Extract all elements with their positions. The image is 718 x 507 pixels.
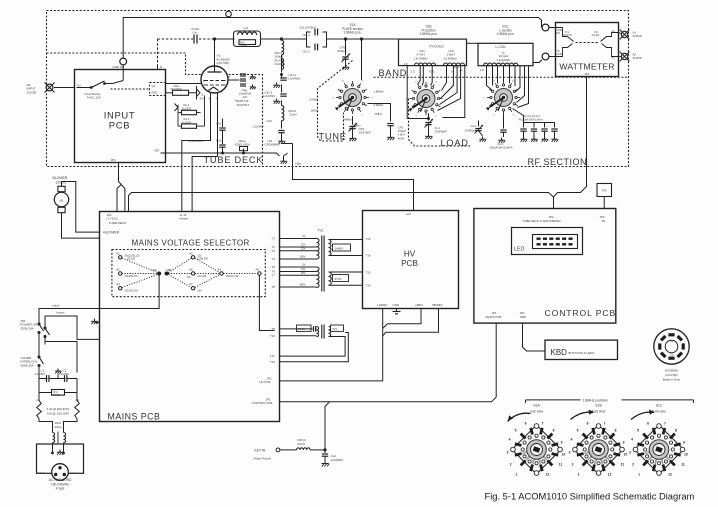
- svg-text:front view: front view: [652, 410, 666, 414]
- svg-text:10n/560V: 10n/560V: [331, 458, 344, 462]
- choke RFC2 22uH: [282, 101, 297, 129]
- svg-text:(GU74B): (GU74B): [665, 373, 677, 377]
- svg-text:+HV: +HV: [406, 212, 412, 216]
- wire PI to L coil: [467, 42, 479, 44]
- caption: [485, 492, 695, 502]
- capacitor Cb2 2.2n/6kV: [253, 119, 286, 144]
- connector A1 SO239: [619, 30, 642, 40]
- node MB: [165, 268, 171, 275]
- label tap 1.8: [404, 62, 463, 73]
- svg-text:C1: C1: [41, 369, 45, 373]
- svg-text:L-COIL: L-COIL: [496, 45, 507, 49]
- wire G2 bus: [155, 149, 263, 155]
- svg-text:MAINS PCB: MAINS PCB: [108, 412, 161, 422]
- svg-text:A8: A8: [255, 268, 259, 272]
- wire wattmeter JP1 down: [554, 77, 587, 198]
- fuse FB: [75, 393, 80, 419]
- svg-text:4x130pF/2kV/1.5kVA: 4x130pF/2kV/1.5kVA: [519, 118, 543, 122]
- svg-text:1: 1: [638, 473, 640, 477]
- svg-text:7MHz: 7MHz: [375, 112, 383, 116]
- RF section dashed border: [47, 11, 629, 167]
- svg-text:120,240: 120,240: [127, 258, 136, 261]
- label RF SECTION: [528, 157, 588, 167]
- svg-text:JP1: JP1: [584, 72, 590, 76]
- svg-text:TV1: TV1: [318, 229, 324, 233]
- svg-text:(240),245: (240),245: [198, 258, 209, 261]
- wire black feed: [39, 309, 100, 323]
- svg-text:TR: TR: [602, 219, 606, 223]
- svg-text:1.8: 1.8: [480, 68, 484, 72]
- tap A2: [116, 268, 138, 279]
- resistor Rs.1 2x2/2W: [179, 103, 197, 115]
- capacitor CP1 5/30pF: [338, 39, 351, 70]
- cathode prong glyph: [197, 86, 205, 101]
- capacitor Cs4 10n/560V: [322, 450, 344, 467]
- tap A3: [116, 282, 138, 293]
- svg-text:S1B: S1B: [595, 404, 602, 408]
- label MAINS VOLTAGE SELECTOR: [132, 239, 250, 248]
- lid crowbar spark gap: [263, 139, 288, 164]
- tap A4: [218, 268, 240, 279]
- switch cover interlock: [38, 356, 44, 373]
- svg-text:BLOWER: BLOWER: [53, 176, 68, 180]
- tap A7: [189, 282, 202, 293]
- svg-text:G-Y1/G2: G-Y1/G2: [107, 217, 119, 221]
- svg-text:A3: A3: [116, 282, 120, 286]
- capacitor CL2 10/450pF: [471, 121, 487, 142]
- svg-text:A4: A4: [218, 268, 222, 272]
- WATTMETER box: [556, 23, 619, 77]
- svg-text:50/100W: 50/100W: [171, 87, 183, 91]
- wire JP3 to KBD: [523, 323, 546, 351]
- svg-text:10/175pF: 10/175pF: [359, 131, 371, 135]
- wire MA to M1 pin: [100, 275, 160, 308]
- svg-text:1.8MHz pos.: 1.8MHz pos.: [420, 32, 438, 36]
- label black: [53, 304, 60, 308]
- transformer core: [322, 236, 324, 292]
- svg-text:7: 7: [542, 422, 544, 426]
- capacitor Ca1.1 2.2nF/6kV: [273, 73, 300, 88]
- svg-text:4: 4: [571, 438, 573, 442]
- capacitor C2 2.2n/3kV: [58, 369, 77, 382]
- control bottom pin labels: [486, 311, 526, 319]
- svg-text:BAND: BAND: [379, 68, 408, 78]
- svg-text:KBD: KBD: [551, 348, 568, 357]
- svg-text:10/450pF: 10/450pF: [465, 129, 477, 133]
- resistor R1 1M/1W: [39, 379, 77, 397]
- svg-text:T16: T16: [366, 254, 371, 258]
- svg-text:10/340pF: 10/340pF: [435, 130, 447, 134]
- svg-text:GND: GND: [557, 52, 563, 56]
- svg-text:A1/A2: A1/A2: [592, 33, 600, 37]
- svg-text:A2: A2: [116, 268, 120, 272]
- svg-text:(Rear Panel): (Rear Panel): [254, 457, 272, 461]
- label AC LINE CORD: [49, 478, 72, 491]
- wire M1 bottom: [62, 213, 100, 238]
- svg-text:3: 3: [507, 451, 509, 455]
- relay K input: [77, 65, 124, 89]
- svg-text:1.8MHz pos.: 1.8MHz pos.: [344, 31, 362, 35]
- svg-text:10uH: 10uH: [54, 425, 61, 429]
- label BAND: [379, 68, 408, 78]
- svg-text:Ch2: Ch2: [216, 139, 222, 143]
- svg-text:18/21: 18/21: [311, 109, 319, 113]
- svg-text:TUNE: TUNE: [319, 132, 347, 142]
- svg-text:MAINS PCB: MAINS PCB: [486, 315, 502, 319]
- LED display connector: [512, 228, 583, 255]
- tap A1: [116, 251, 140, 260]
- transformer secondary 270V: [329, 272, 363, 285]
- connector GND RX: [113, 58, 127, 69]
- wire S1A feed: [361, 39, 363, 80]
- svg-text:2x2/2W: 2x2/2W: [182, 106, 192, 110]
- svg-text:JP1: JP1: [111, 158, 117, 162]
- rotary switch S1A plate section: [332, 81, 373, 117]
- svg-text:RSC: RSC: [152, 91, 158, 95]
- motor M1: [54, 186, 68, 212]
- svg-text:+BLOWER: +BLOWER: [103, 231, 120, 235]
- svg-text:7: 7: [604, 422, 606, 426]
- svg-text:110,220,230: 110,220,230: [125, 275, 139, 278]
- svg-text:1M/1W: 1M/1W: [53, 394, 61, 397]
- ground chassis mains: [91, 319, 99, 325]
- svg-text:2x2.2nF/6kV: 2x2.2nF/6kV: [300, 25, 316, 29]
- svg-text:+380V: +380V: [415, 303, 424, 307]
- svg-text:TUBE DECK & WATTMETER: TUBE DECK & WATTMETER: [523, 219, 561, 223]
- svg-text:Cb1.2: Cb1.2: [303, 50, 311, 54]
- svg-text:A7: A7: [189, 282, 193, 286]
- label JP2 HV PCB: [260, 377, 272, 385]
- wire +380V: [383, 309, 421, 329]
- svg-text:RF SECTION: RF SECTION: [528, 157, 588, 167]
- label socket bottom view: [663, 369, 681, 382]
- label S1A PLATE section: [342, 23, 363, 35]
- label TUNE: [319, 132, 347, 142]
- svg-text:270V: 270V: [335, 277, 342, 281]
- svg-text:100V: 100V: [299, 255, 305, 259]
- wire A8 down: [259, 275, 274, 330]
- svg-text:3: 3: [569, 451, 571, 455]
- varistor VReg V280LA20A: [235, 139, 251, 154]
- wire TRI to JP3 TR: [603, 197, 605, 209]
- wire T16: [0, 0, 2, 2]
- rotary switch S1C L section: [483, 81, 524, 117]
- inductor LL 10.4uH: [484, 51, 518, 66]
- wires LL taps to S1C: [480, 66, 529, 108]
- label S1B front view: [592, 404, 606, 414]
- svg-text:100,110,120: 100,110,120: [226, 275, 240, 278]
- tap A6: [187, 268, 207, 280]
- HV PCB pin labels: [366, 212, 443, 307]
- transformer primary taps T1-T8: [272, 234, 317, 289]
- svg-text:M1: M1: [59, 198, 63, 202]
- svg-text:4 taps: 4 taps: [56, 487, 65, 491]
- svg-text:MA: MA: [153, 268, 157, 272]
- node A neutralization: [158, 39, 164, 70]
- svg-text:GND RX: GND RX: [113, 65, 125, 69]
- svg-text:2.2n/3kV: 2.2n/3kV: [35, 372, 46, 376]
- LOAD dashed boundary: [409, 99, 471, 147]
- svg-text:120/3W: 120/3W: [238, 43, 247, 47]
- svg-text:G1: G1: [670, 353, 674, 357]
- tap A8: [255, 268, 261, 276]
- svg-text:4: 4: [509, 438, 511, 442]
- svg-text:5: 5: [637, 429, 639, 433]
- relay coil dashed box Q1: [150, 83, 166, 96]
- svg-text:black: black: [53, 304, 60, 308]
- svg-text:3.5: 3.5: [411, 69, 415, 73]
- bracket 1.8MHz position: [526, 398, 694, 403]
- svg-text:PI-COILS: PI-COILS: [430, 45, 445, 49]
- svg-text:250V/10A: 250V/10A: [21, 363, 34, 367]
- svg-text:8: 8: [675, 429, 677, 433]
- svg-text:HVRET: HVRET: [378, 303, 388, 307]
- svg-text:180V: 180V: [299, 283, 305, 287]
- label S1C L-section: [497, 25, 515, 37]
- label V1 4CX800A (GU74B): [217, 54, 231, 66]
- switch detail S1B front: [569, 410, 628, 477]
- choke RFC 10uH common mode: [39, 419, 77, 448]
- svg-text:T9: T9: [272, 327, 276, 331]
- svg-text:6: 6: [525, 422, 527, 426]
- svg-text:T14: T14: [366, 284, 371, 288]
- svg-text:SO239: SO239: [633, 56, 642, 60]
- selector dotted links: [122, 258, 258, 288]
- svg-text:BUTTONS & LEDS: BUTTONS & LEDS: [569, 351, 595, 355]
- label S1A rear view: [530, 404, 544, 414]
- transformer aux taps T9-T12: [270, 325, 317, 364]
- wire +HV to HV PCB: [282, 144, 414, 211]
- junction CP1 tap: [344, 38, 346, 40]
- triode V1 4CX800A: [201, 66, 228, 96]
- svg-text:9: 9: [683, 441, 685, 445]
- svg-text:A1: A1: [116, 251, 120, 255]
- connector A2 SO239: [619, 52, 642, 62]
- svg-text:T5: T5: [272, 265, 276, 269]
- svg-text:CL4.1-CL4.4: CL4.1-CL4.4: [524, 114, 541, 118]
- svg-text:T10: T10: [270, 334, 275, 338]
- wire heater pin right: [192, 96, 217, 212]
- label +BLOWER: [103, 231, 120, 235]
- svg-text:S1A: S1A: [533, 404, 540, 408]
- capacitor Cag 12x820pF: [228, 74, 256, 99]
- svg-text:4-6: 4-6: [200, 97, 205, 101]
- wire S1A to CP3: [368, 104, 391, 122]
- label COVER INTERLOCK: [21, 356, 38, 367]
- label fuse ratings: [47, 407, 70, 415]
- svg-text:15V: 15V: [301, 267, 306, 271]
- ground C1C2 mid: [55, 369, 62, 379]
- PI-COILS box: [399, 39, 467, 66]
- connector wattmeter in top: [542, 24, 555, 31]
- resistor Rs.2 2x2/2W: [179, 117, 197, 128]
- svg-text:200: 200: [198, 290, 203, 293]
- pin label 1: [203, 75, 231, 101]
- label 2x10n/630V: [189, 139, 205, 143]
- svg-text:24/28: 24/28: [310, 98, 318, 102]
- ground HV gnd pin: [393, 309, 401, 314]
- capacitor bank CL4.1-CL4.4: [519, 114, 559, 142]
- label Input Relay: [85, 92, 102, 100]
- cathode prong glyph 2: [175, 96, 205, 127]
- svg-text:10V: 10V: [301, 243, 306, 247]
- svg-text:RX: RX: [557, 31, 561, 35]
- node MA: [153, 268, 161, 275]
- capacitor CP3 100pF: [387, 124, 406, 141]
- svg-text:0V: 0V: [302, 263, 305, 267]
- label JP2 tube deck: [107, 213, 128, 225]
- svg-text:6: 6: [647, 422, 649, 426]
- svg-text:KBD: KBD: [520, 315, 526, 319]
- svg-text:PCB: PCB: [401, 259, 418, 268]
- capacitor Ca1.2 2.2nF/6kV: [263, 85, 287, 104]
- label BLOWER 12VDC: [53, 176, 68, 185]
- svg-text:12: 12: [668, 473, 672, 477]
- svg-text:2.2nF/6kV: 2.2nF/6kV: [263, 94, 276, 98]
- KBD box: [545, 340, 618, 359]
- wire RF input to INPUT PCB: [54, 87, 75, 89]
- svg-text:T13: T13: [366, 271, 371, 275]
- TRI box: [597, 184, 612, 197]
- svg-text:250V/10A: 250V/10A: [21, 326, 34, 330]
- svg-text:7: 7: [664, 422, 666, 426]
- L-COIL box: [478, 43, 533, 65]
- svg-text:2.2nF/6kV: 2.2nF/6kV: [288, 77, 301, 81]
- svg-text:G2: G2: [670, 339, 674, 343]
- capacitor Ch2: [216, 134, 226, 154]
- wire anode to Lp1: [213, 38, 234, 40]
- svg-text:brown: brown: [71, 471, 79, 475]
- capacitor CP2 10/175pF: [349, 116, 371, 141]
- label S1C front view: [652, 404, 666, 414]
- HV PCB box: [363, 211, 459, 309]
- svg-text:(GU74B): (GU74B): [217, 61, 229, 65]
- label brown: [57, 311, 65, 315]
- anode cap connector: [226, 11, 232, 17]
- svg-text:C2: C2: [63, 369, 67, 373]
- transformer 62V box: [331, 325, 344, 331]
- svg-text:MAINS VOLTAGE SELECTOR: MAINS VOLTAGE SELECTOR: [132, 239, 250, 248]
- svg-text:HV PCB: HV PCB: [260, 380, 271, 384]
- svg-text:380RET: 380RET: [432, 303, 443, 307]
- CONTROL PCB box: [474, 209, 616, 324]
- wire JP1 to mains control: [280, 323, 497, 402]
- svg-text:T=02..12V: T=02..12V: [87, 96, 102, 100]
- relay K1 RX/TX: [556, 28, 574, 57]
- MAINS PCB box: [100, 212, 280, 422]
- svg-text:2: 2: [572, 463, 574, 467]
- svg-text:4CX800A: 4CX800A: [665, 369, 679, 373]
- svg-text:1.8-10MHz: 1.8-10MHz: [414, 56, 429, 60]
- capacitor CL3 130pF: [490, 113, 513, 149]
- svg-text:210,220: 210,220: [198, 275, 207, 278]
- connector J1 RF INPUT SO239: [27, 82, 55, 94]
- wire L-coil output: [533, 60, 542, 63]
- svg-text:T15: T15: [366, 237, 371, 241]
- wire Lp1 to Cb1: [260, 38, 306, 40]
- wire S1C to CL4 bank: [513, 109, 555, 126]
- label TUBE DECK: [204, 155, 264, 165]
- svg-text:Ca: Ca: [193, 31, 197, 35]
- svg-text:130pF/2kV/2.8kVA: 130pF/2kV/2.8kVA: [490, 146, 513, 150]
- svg-text:rear view: rear view: [530, 410, 544, 414]
- svg-text:WATTMETER: WATTMETER: [559, 62, 614, 72]
- AC line cord box: [37, 444, 84, 473]
- svg-text:7/10: 7/10: [429, 69, 435, 73]
- svg-text:Bottom View: Bottom View: [663, 378, 681, 382]
- svg-text:CL2: CL2: [471, 124, 477, 128]
- svg-text:5: 5: [577, 429, 579, 433]
- svg-text:Cb2: Cb2: [267, 119, 273, 123]
- capacitor Cb1.1 Cb1.2 2x2.2nF/6kV: [300, 25, 327, 53]
- label J1 J2 heater: [180, 213, 189, 221]
- frequency labels S1A: [310, 89, 385, 128]
- svg-text:T1: T1: [272, 237, 276, 241]
- svg-text:T7: T7: [272, 274, 276, 278]
- svg-text:10A @ 100-120V: 10A @ 100-120V: [47, 411, 69, 415]
- mains voltage selector dashed box: [112, 250, 265, 297]
- tube socket bottom view: [654, 329, 689, 364]
- svg-text:S1C: S1C: [656, 404, 663, 408]
- svg-text:10: 10: [562, 453, 566, 457]
- svg-text:1.8: 1.8: [404, 62, 408, 66]
- svg-text:110: 110: [187, 276, 191, 279]
- svg-text:SO239: SO239: [27, 90, 37, 94]
- svg-text:T8: T8: [272, 285, 276, 289]
- switch detail S1C front: [629, 410, 688, 477]
- tap A5: [189, 251, 208, 260]
- wire T12 loop: [280, 333, 349, 362]
- svg-text:+HV: +HV: [295, 162, 302, 166]
- svg-text:14MHz: 14MHz: [343, 118, 353, 122]
- svg-text:LED: LED: [514, 247, 525, 253]
- svg-text:8: 8: [553, 429, 555, 433]
- svg-text:T11: T11: [270, 354, 275, 358]
- svg-text:TRI: TRI: [602, 188, 607, 192]
- svg-text:HV: HV: [404, 250, 416, 259]
- label LOAD: [441, 138, 469, 148]
- wire G1 from INPUT PCB: [166, 83, 202, 85]
- wire RFC chain to +HV: [0, 0, 2, 2]
- svg-text:1.8MHz position: 1.8MHz position: [583, 398, 608, 402]
- capacitor CL1 10/340pF: [425, 119, 477, 139]
- svg-text:4kVA: 4kVA: [398, 136, 405, 140]
- svg-text:Ch1: Ch1: [216, 122, 222, 126]
- INPUT PCB box: [75, 70, 166, 163]
- rotary switch S1B pi section: [406, 82, 447, 118]
- wire M1 top to +BLOWER: [62, 182, 100, 233]
- svg-text:18V: 18V: [301, 271, 306, 275]
- wire brown feed: [45, 316, 100, 339]
- svg-text:11: 11: [681, 463, 685, 467]
- BAND dashed net line: [374, 76, 629, 78]
- svg-text:10: 10: [624, 453, 628, 457]
- capacitor Ca 0.2pF: [158, 27, 215, 44]
- wire JP1 to G pins: [117, 163, 125, 212]
- svg-text:0V: 0V: [302, 234, 305, 238]
- svg-text:2.2n/6kV: 2.2n/6kV: [253, 125, 264, 129]
- wire interpole: [39, 333, 45, 356]
- svg-text:front view: front view: [592, 410, 606, 414]
- wire KEY node riser: [324, 402, 330, 451]
- svg-text:6: 6: [587, 422, 589, 426]
- svg-text:SOCKET: SOCKET: [237, 103, 250, 107]
- junction S1A tap: [360, 38, 362, 40]
- resistor Rsw 50/100W: [166, 84, 197, 96]
- svg-text:GND: GND: [393, 303, 399, 307]
- choke RFC1 160uH plate choke: [275, 41, 286, 73]
- svg-text:10: 10: [684, 453, 688, 457]
